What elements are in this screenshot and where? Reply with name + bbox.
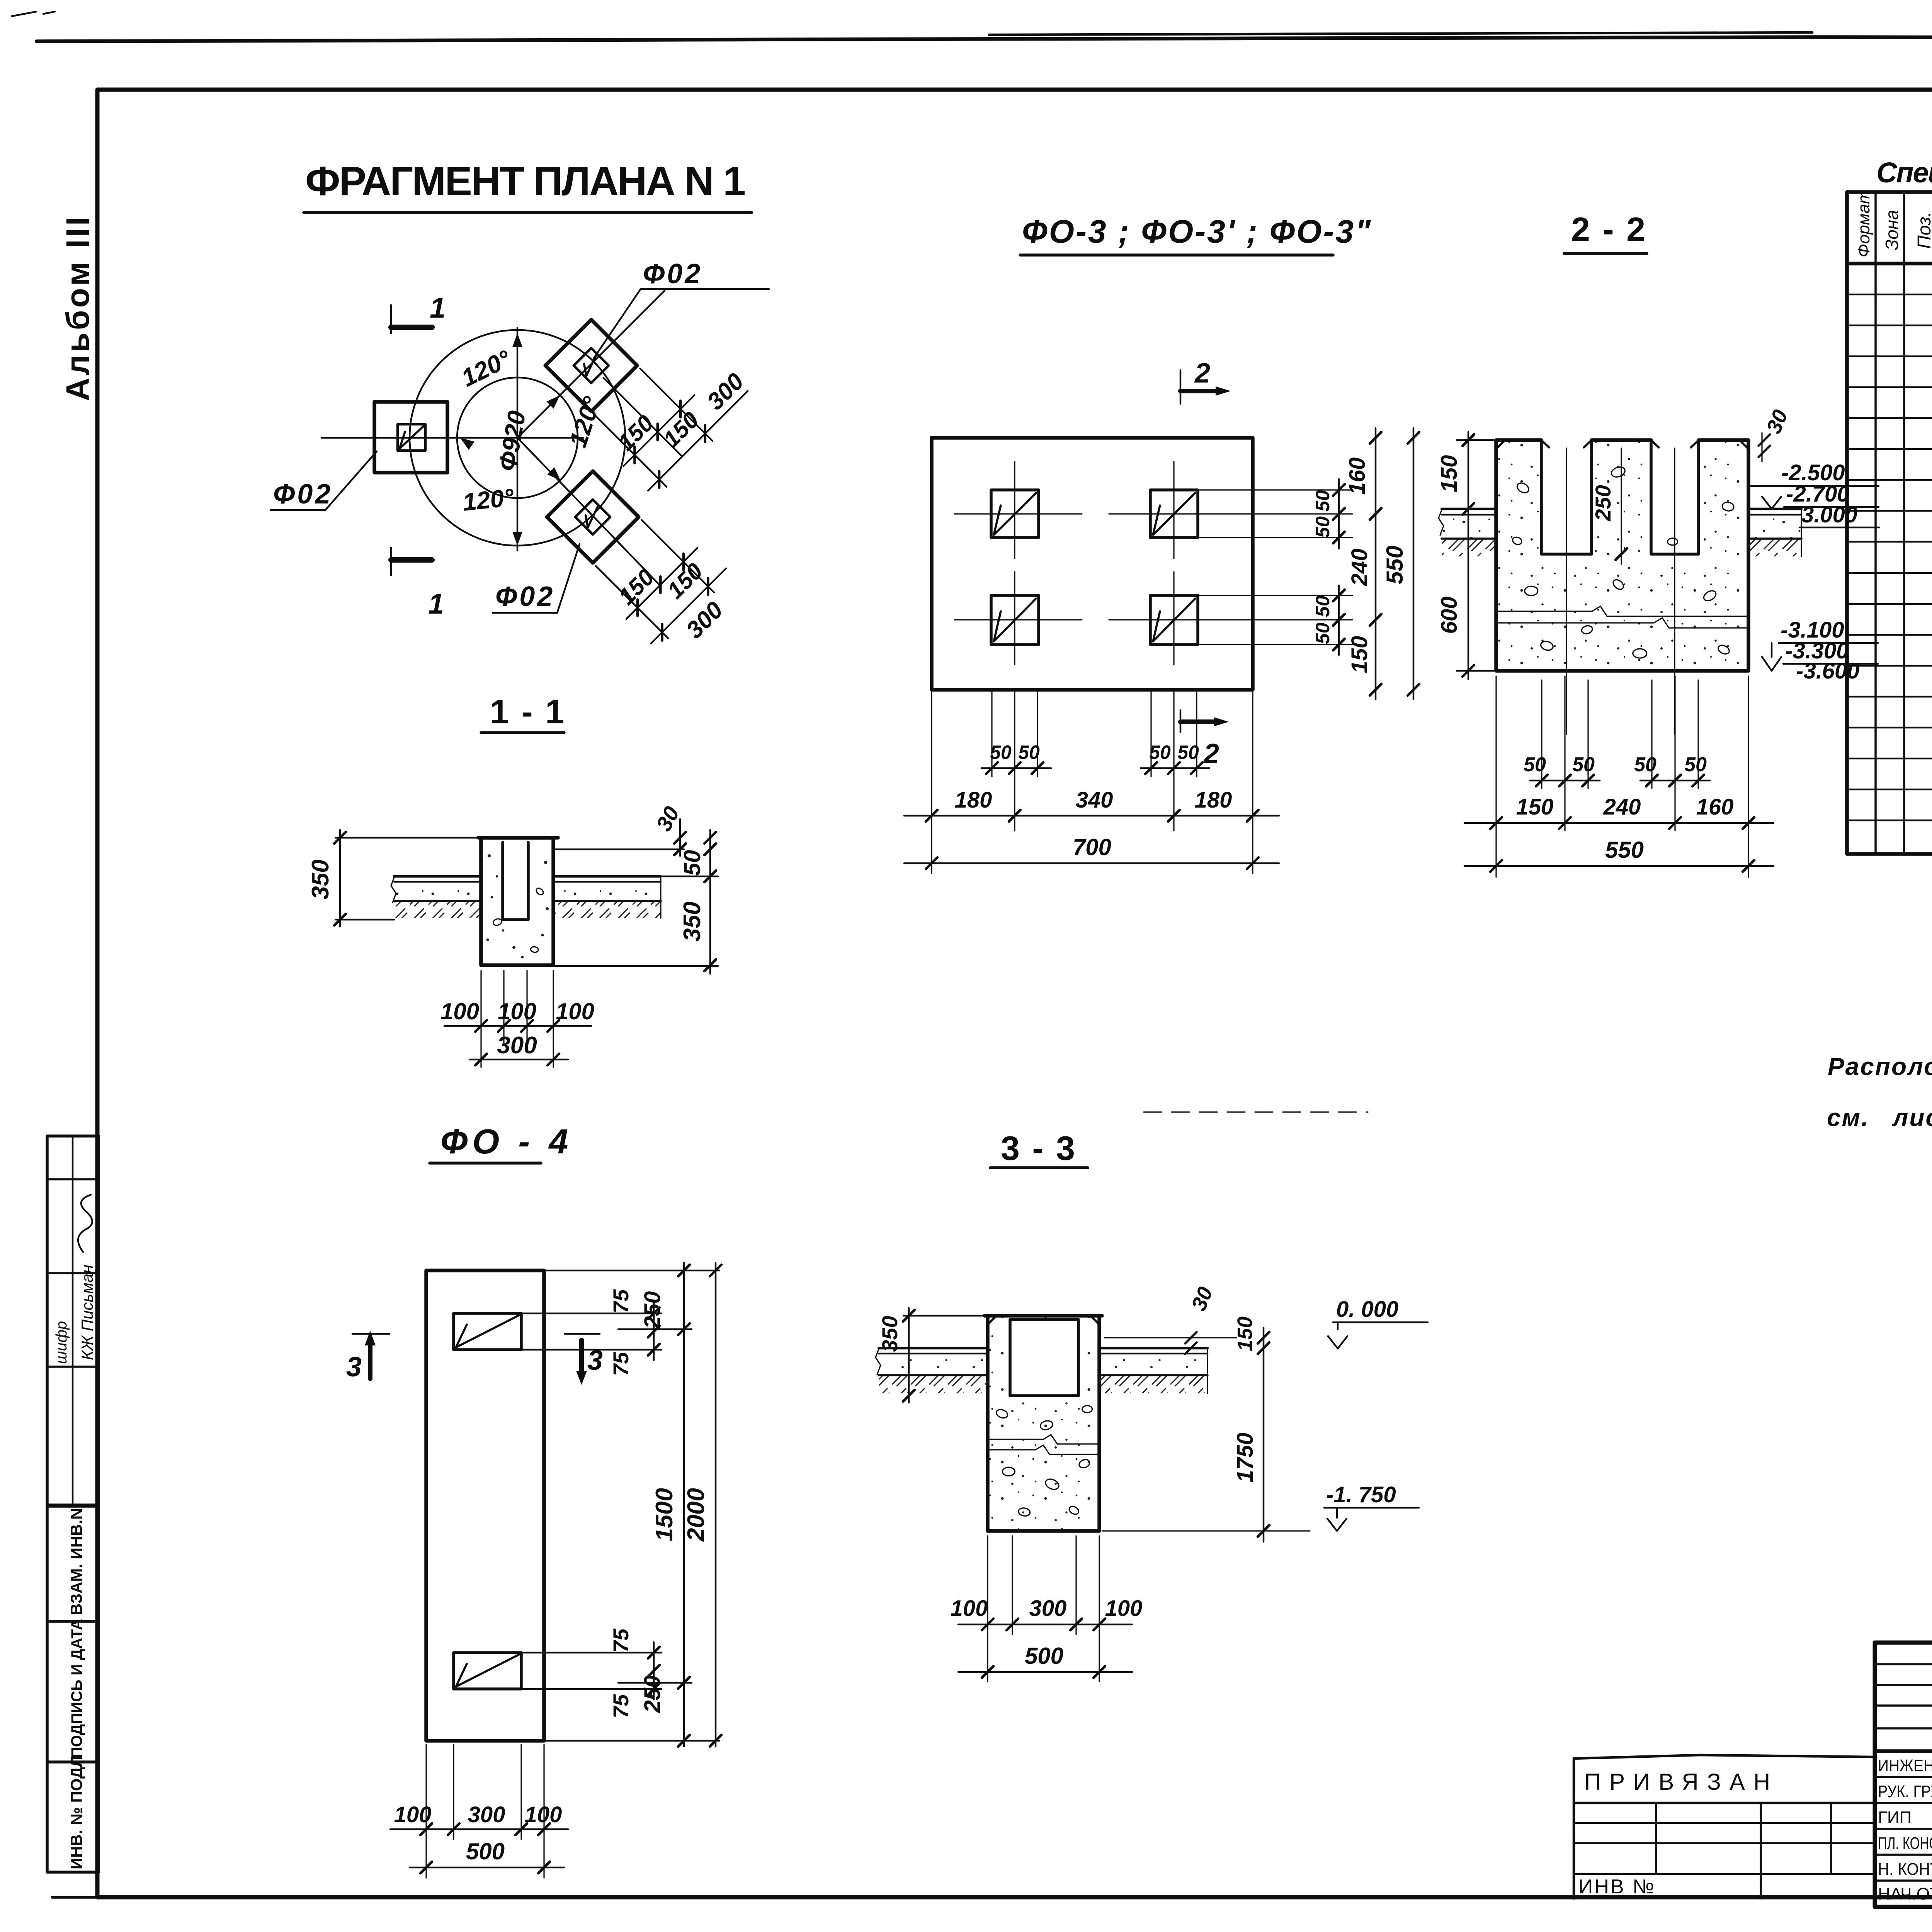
svg-text:75: 75 xyxy=(609,1289,633,1313)
svg-text:3: 3 xyxy=(346,1352,362,1383)
svg-text:Альбом III: Альбом III xyxy=(60,214,96,401)
svg-text:см. листы КЖ 43, 44, 45: см. листы КЖ 43, 44, 45 xyxy=(1827,1104,1932,1131)
svg-text:300: 300 xyxy=(497,1032,537,1059)
svg-text:ИНВ №: ИНВ № xyxy=(1578,1876,1656,1898)
svg-text:Зона: Зона xyxy=(1882,210,1902,250)
svg-text:50: 50 xyxy=(990,742,1012,763)
svg-text:150: 150 xyxy=(614,564,659,610)
svg-text:50: 50 xyxy=(1524,753,1546,776)
svg-text:50: 50 xyxy=(1177,742,1199,763)
svg-text:1: 1 xyxy=(430,292,446,324)
svg-text:120°: 120° xyxy=(564,393,606,451)
svg-text:350: 350 xyxy=(307,859,334,899)
svg-text:50: 50 xyxy=(1634,753,1656,776)
svg-text:-1. 750: -1. 750 xyxy=(1326,1482,1396,1507)
svg-text:шифр: шифр xyxy=(53,1321,70,1364)
svg-text:160: 160 xyxy=(1345,457,1370,495)
svg-text:120°: 120° xyxy=(457,345,515,392)
svg-text:300: 300 xyxy=(1029,1596,1067,1621)
svg-text:ФО-3 ; ФО-3' ; ФО-3": ФО-3 ; ФО-3' ; ФО-3" xyxy=(1022,213,1372,250)
svg-text:75: 75 xyxy=(609,1352,633,1376)
svg-text:100: 100 xyxy=(951,1596,988,1621)
svg-text:600: 600 xyxy=(1437,597,1462,634)
svg-text:50: 50 xyxy=(1018,742,1040,763)
svg-text:3.000: 3.000 xyxy=(1801,502,1857,527)
svg-text:50: 50 xyxy=(1572,753,1595,776)
svg-text:75: 75 xyxy=(609,1694,633,1718)
svg-text:30: 30 xyxy=(1762,406,1792,437)
svg-text:150: 150 xyxy=(1233,1316,1257,1351)
svg-text:300: 300 xyxy=(702,368,749,415)
svg-text:240: 240 xyxy=(1603,794,1641,820)
svg-text:100: 100 xyxy=(1105,1596,1143,1621)
svg-text:700: 700 xyxy=(1073,834,1111,860)
svg-text:150: 150 xyxy=(658,407,704,452)
svg-text:500: 500 xyxy=(1025,1643,1063,1669)
svg-text:100: 100 xyxy=(556,998,594,1024)
svg-text:300: 300 xyxy=(468,1802,505,1827)
svg-text:150: 150 xyxy=(662,558,708,604)
svg-text:ФО - 4: ФО - 4 xyxy=(440,1122,573,1161)
svg-text:250: 250 xyxy=(1591,485,1615,521)
svg-text:340: 340 xyxy=(1076,787,1113,813)
svg-text:150: 150 xyxy=(1516,794,1554,820)
svg-text:100: 100 xyxy=(394,1802,432,1827)
svg-text:150: 150 xyxy=(1347,636,1372,673)
svg-text:Формат: Формат xyxy=(1854,190,1873,257)
svg-text:250: 250 xyxy=(640,1675,665,1713)
svg-text:100: 100 xyxy=(498,998,536,1024)
svg-text:ГИП: ГИП xyxy=(1878,1808,1912,1827)
svg-text:50: 50 xyxy=(679,850,705,876)
svg-text:160: 160 xyxy=(1696,794,1734,820)
svg-text:ВЗАМ. ИНВ.N: ВЗАМ. ИНВ.N xyxy=(67,1508,85,1615)
svg-text:-3.600: -3.600 xyxy=(1796,658,1859,684)
svg-text:ИНВ. № ПОДЛ: ИНВ. № ПОДЛ xyxy=(67,1756,85,1869)
svg-text:РУК. ГРУП.: РУК. ГРУП. xyxy=(1878,1782,1932,1801)
svg-text:50: 50 xyxy=(1312,516,1333,538)
svg-text:Поз.: Поз. xyxy=(1914,211,1932,249)
svg-text:Ф02: Ф02 xyxy=(495,581,555,612)
svg-text:100: 100 xyxy=(525,1802,562,1827)
svg-text:2: 2 xyxy=(1203,738,1219,769)
svg-text:1: 1 xyxy=(428,588,444,620)
svg-text:Расположение фундаментов: Расположение фундаментов под оборудовани… xyxy=(1828,1053,1932,1080)
svg-text:ПРИВЯЗАН: ПРИВЯЗАН xyxy=(1584,1769,1779,1795)
svg-text:2000: 2000 xyxy=(683,1488,709,1542)
svg-text:Ф02: Ф02 xyxy=(273,479,333,510)
svg-text:КЖ Письман: КЖ Письман xyxy=(78,1265,96,1360)
svg-text:Ф920: Ф920 xyxy=(493,409,531,473)
svg-text:300: 300 xyxy=(681,597,728,644)
svg-text:550: 550 xyxy=(1382,546,1408,584)
svg-text:1500: 1500 xyxy=(651,1488,678,1541)
svg-text:Н. КОНТР.: Н. КОНТР. xyxy=(1878,1860,1932,1879)
svg-text:ПЛ. КОНСТР.: ПЛ. КОНСТР. xyxy=(1878,1834,1932,1853)
svg-text:150: 150 xyxy=(613,410,658,456)
svg-text:НАЧ.ОТД: НАЧ.ОТД xyxy=(1878,1884,1932,1903)
svg-text:250: 250 xyxy=(640,1291,665,1329)
svg-text:180: 180 xyxy=(1195,787,1232,813)
svg-text:Ф02: Ф02 xyxy=(643,259,702,289)
svg-text:1 - 1: 1 - 1 xyxy=(490,692,566,731)
svg-text:ФРАГМЕНТ ПЛАНА N 1: ФРАГМЕНТ ПЛАНА N 1 xyxy=(305,158,750,204)
svg-text:75: 75 xyxy=(609,1628,633,1653)
svg-text:50: 50 xyxy=(1312,595,1333,617)
svg-text:1750: 1750 xyxy=(1233,1432,1258,1482)
svg-text:180: 180 xyxy=(955,787,992,813)
svg-text:50: 50 xyxy=(1149,742,1171,763)
svg-text:ПОДПИСЬ И ДАТА: ПОДПИСЬ И ДАТА xyxy=(68,1619,85,1758)
svg-text:550: 550 xyxy=(1605,837,1644,863)
svg-text:30: 30 xyxy=(651,803,684,835)
svg-text:50: 50 xyxy=(1684,753,1707,776)
svg-text:100: 100 xyxy=(440,998,479,1024)
svg-text:Спецификация на фундаменты: Спецификация на фундаменты под оборудова… xyxy=(1876,156,1932,189)
svg-text:150: 150 xyxy=(1437,455,1462,493)
svg-text:30: 30 xyxy=(1187,1284,1217,1314)
svg-text:0. 000: 0. 000 xyxy=(1336,1297,1398,1322)
svg-text:3 - 3: 3 - 3 xyxy=(1001,1129,1077,1167)
svg-text:120°: 120° xyxy=(461,483,515,516)
svg-text:240: 240 xyxy=(1347,549,1372,587)
svg-text:ИНЖЕНЕР: ИНЖЕНЕР xyxy=(1878,1756,1932,1775)
svg-text:500: 500 xyxy=(466,1838,505,1864)
svg-text:2: 2 xyxy=(1194,358,1210,389)
svg-text:50: 50 xyxy=(1312,490,1333,512)
svg-text:350: 350 xyxy=(679,901,706,941)
svg-text:350: 350 xyxy=(878,1316,902,1352)
svg-text:50: 50 xyxy=(1312,622,1333,644)
svg-text:2 - 2: 2 - 2 xyxy=(1571,210,1647,248)
